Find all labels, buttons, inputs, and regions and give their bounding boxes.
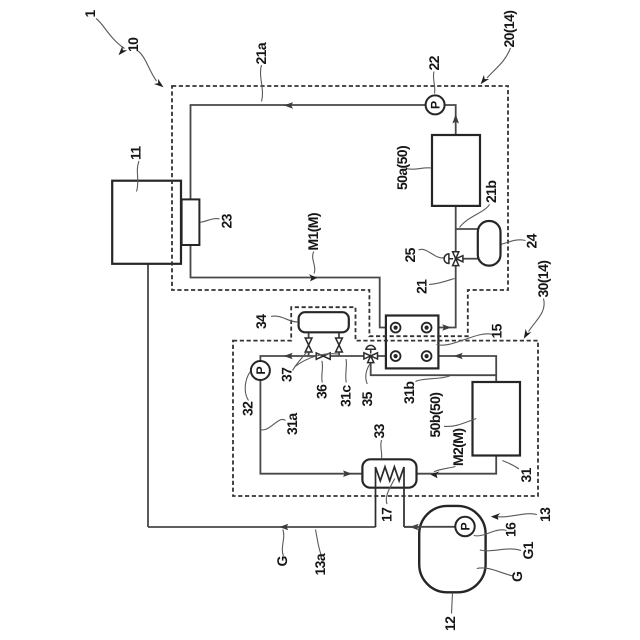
leader 31b — [416, 376, 450, 382]
svg-text:36: 36 — [314, 384, 330, 399]
pump 16 circle — [455, 517, 474, 536]
svg-text:31a: 31a — [284, 413, 300, 435]
HX15 port dot bottom-left — [394, 354, 398, 358]
svg-text:P: P — [429, 101, 443, 109]
leader 16 — [474, 530, 507, 536]
leader 33 — [380, 440, 383, 459]
svg-text:13: 13 — [537, 507, 553, 522]
leader 34 — [271, 316, 298, 322]
chiller box 50b(50) — [473, 382, 521, 456]
flow arrow G rail pointing left — [279, 524, 288, 531]
leader 21a — [260, 65, 262, 102]
leader 20(14) — [487, 48, 511, 78]
dashed boundary 30 with bulge around tank 34 — [233, 307, 538, 496]
leader 31c — [345, 359, 348, 383]
device box 11 — [112, 181, 181, 264]
leader 11 — [137, 161, 140, 192]
heater core box 23 on box 11 — [182, 199, 200, 245]
leader 21 — [429, 279, 455, 285]
svg-text:30(14): 30(14) — [535, 261, 551, 298]
dashed boundary 10/20 with notch around HX15 top — [172, 86, 508, 336]
svg-text:33: 33 — [371, 423, 387, 438]
pump 32 circle — [251, 361, 270, 380]
svg-text:25: 25 — [402, 247, 418, 262]
valve 36 bowtie left triangle — [316, 353, 323, 359]
check valve 37a bottom triangle — [305, 345, 312, 352]
leader 37 fork b — [295, 354, 339, 367]
svg-text:31: 31 — [518, 467, 534, 482]
gas tank 12 — [419, 506, 485, 592]
svg-text:11: 11 — [128, 146, 144, 160]
svg-text:15: 15 — [489, 323, 505, 338]
chiller box 50a(50) — [432, 135, 480, 206]
HX15 port dot top-left — [394, 326, 398, 330]
wire valve25 right port to tank24 lower — [463, 258, 478, 260]
leader 24 — [502, 240, 526, 244]
leader M1(M) — [313, 252, 315, 274]
svg-text:31c: 31c — [338, 385, 354, 407]
flow arrow loop30 bottom pipe pointing right — [343, 470, 352, 477]
leader G tank — [477, 568, 513, 576]
wire G bottom rail left part to coil left leg — [148, 526, 376, 528]
HX15 port dot bottom-right — [425, 354, 429, 358]
flow arrow on 21a top pipe pointing left — [284, 102, 293, 109]
leader G1 — [480, 549, 521, 551]
leader 37 fork a — [293, 351, 308, 371]
tank 34 — [299, 312, 349, 332]
wire loop30 top: pump32 top up and right to HX15 left bottom port — [260, 356, 386, 361]
wire tank34 right stub through check valve — [338, 332, 340, 356]
leader 17 — [386, 479, 395, 505]
leader 13a — [316, 530, 322, 555]
leader 23 — [200, 219, 219, 223]
HX15 port circle top-left — [391, 323, 401, 333]
arrowhead of M2(M) — [431, 471, 440, 478]
valve 35 three-way: left triangle — [364, 353, 371, 359]
wire HX33 right to 50b bottom riser — [417, 456, 497, 474]
wire G bottom rail right part: coil right leg to pump16 — [404, 526, 456, 528]
svg-text:31b: 31b — [401, 382, 417, 404]
svg-text:10: 10 — [125, 37, 141, 52]
heat exchanger 15 body — [386, 316, 439, 369]
leader G line — [282, 530, 283, 557]
arrowhead of 30(14) — [524, 329, 532, 339]
leader 30(14) — [529, 299, 545, 332]
HX15 port circle bottom-left — [391, 351, 401, 361]
leader 15 — [437, 334, 493, 345]
leader 10 — [138, 51, 157, 81]
svg-text:P: P — [459, 522, 473, 530]
tank 24 — [478, 221, 501, 266]
pump 22 circle — [426, 95, 445, 114]
arrowhead of 13 — [491, 513, 500, 520]
wire HX15 right bottom port to 50b top drop — [438, 356, 496, 382]
valve 25 bottom triangle — [453, 259, 459, 266]
wire loop20 bottom: below box23 down, right, down into HX15 left top port — [191, 245, 386, 328]
wire bypass 31b: valve35 bottom down then right to 50b top line — [371, 363, 497, 376]
svg-text:G: G — [509, 571, 525, 582]
valve 35 actuator dome on top — [366, 345, 375, 353]
leader 1 — [96, 19, 125, 49]
svg-text:32: 32 — [240, 401, 256, 416]
valve 35 right triangle — [371, 353, 378, 359]
HX15 port circle bottom-right — [422, 351, 432, 361]
wire branch 21b to tank24 upper — [456, 228, 478, 230]
wire pump22 right to corner and down to valve 25 top — [445, 105, 456, 135]
svg-text:12: 12 — [442, 616, 458, 631]
leader 31 — [503, 461, 520, 470]
HX15 port dot top-right — [425, 326, 429, 330]
svg-text:G1: G1 — [520, 541, 536, 559]
arrowhead of M1(M) — [309, 274, 318, 281]
svg-text:50a(50): 50a(50) — [394, 146, 410, 190]
heat exchanger 33 body — [362, 459, 416, 487]
svg-text:P: P — [254, 366, 268, 374]
valve 35 bottom triangle — [368, 356, 374, 363]
svg-text:21b: 21b — [483, 181, 499, 203]
svg-text:37: 37 — [279, 367, 295, 382]
svg-text:34: 34 — [253, 314, 269, 329]
flow arrow loop30 top pipe pointing left — [284, 353, 293, 360]
check valve 37b top triangle — [336, 338, 343, 345]
wire 50a bottom to valve 25 — [455, 206, 457, 252]
wire loop20 left+top: from heater-box 23 top up, across top pipe 21a to pump 22 — [191, 105, 426, 199]
svg-text:13a: 13a — [312, 553, 328, 575]
leader 13 — [494, 514, 538, 517]
valve 25 actuator dome on left — [444, 254, 453, 264]
leader 36 — [321, 361, 324, 383]
flow arrow up into 50a — [452, 114, 459, 124]
wire tank34 left stub through check valve — [308, 332, 310, 356]
coil of HX33 with legs 17 — [376, 467, 405, 527]
leader 25 — [419, 249, 444, 258]
flow arrow into HX15 bottom right, pointing left — [454, 353, 463, 360]
wire G line: box11 bottom down to bottom rail — [147, 264, 149, 527]
leader 35 — [366, 364, 370, 384]
svg-text:1: 1 — [82, 10, 98, 18]
leader 32 — [245, 372, 250, 401]
leader 31a — [261, 419, 286, 430]
valve 36 bowtie right triangle — [323, 353, 330, 359]
wire pump32 bottom down and right to HX33 — [260, 380, 362, 474]
svg-text:24: 24 — [524, 233, 540, 248]
leader 50a(50) — [407, 168, 431, 169]
svg-text:35: 35 — [359, 391, 375, 406]
arrowhead of 1 — [119, 46, 128, 55]
valve 25 three-way: top triangle — [453, 252, 459, 259]
svg-text:21a: 21a — [253, 42, 269, 64]
valve 25 right triangle — [456, 256, 463, 262]
svg-text:M2(M): M2(M) — [450, 429, 466, 466]
leader 22 — [433, 72, 434, 94]
HX15 port circle top-right — [422, 323, 432, 333]
svg-text:50b(50): 50b(50) — [427, 393, 443, 438]
svg-text:M1(M): M1(M) — [305, 213, 321, 250]
svg-text:20(14): 20(14) — [501, 11, 517, 48]
leader 21b — [460, 205, 490, 228]
leader 12 — [452, 593, 453, 614]
svg-text:23: 23 — [219, 213, 235, 228]
leader M2(M) — [434, 467, 456, 472]
flow arrow pump16 line pointing left — [410, 524, 419, 531]
svg-text:22: 22 — [426, 55, 442, 70]
flow arrow out of HX15 top right, pointing right — [442, 324, 451, 331]
svg-text:G: G — [274, 556, 290, 567]
arrowhead of 10 — [154, 79, 164, 87]
check valve 37a top triangle — [305, 338, 312, 345]
arrowhead of 20(14) — [481, 75, 490, 84]
wire valve25 bottom down, left into HX15 right top port — [438, 265, 455, 328]
svg-text:21: 21 — [414, 279, 430, 294]
wire from pump16 crossing tank12 wall — [404, 526, 456, 528]
svg-text:16: 16 — [503, 522, 519, 537]
check valve 37b bottom triangle — [336, 345, 343, 352]
svg-text:17: 17 — [379, 507, 395, 522]
leader 50b(50) — [444, 419, 476, 427]
